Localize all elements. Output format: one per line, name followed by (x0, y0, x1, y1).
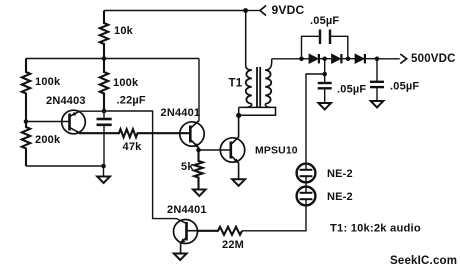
diode D3 (348, 58, 355, 60)
capacitor C1 .05uF top (302, 36, 321, 59)
resistor 100k left (22, 59, 30, 122)
ground MPSU10 (232, 179, 245, 186)
neon lamp NE-2 #1 (297, 164, 316, 183)
node transformer bottom (236, 113, 241, 118)
resistor 22M (197, 227, 242, 235)
transistor Q4 MPSU10 (220, 138, 244, 162)
svg-text:T1: T1 (229, 78, 243, 90)
resistor 5k (194, 150, 202, 189)
ground C2 (318, 103, 331, 110)
neon lamp NE-2 #2 (297, 187, 316, 206)
connector arrow 9VDC (260, 6, 266, 16)
node D1 anode (299, 57, 304, 62)
resistor 47k (79, 129, 190, 137)
node rail-10k junction (102, 56, 107, 61)
svg-text:500VDC: 500VDC (411, 53, 456, 65)
svg-text:47k: 47k (123, 141, 143, 153)
wire 9V top rail (104, 10, 246, 12)
capacitor C3 .05uF (376, 59, 378, 82)
resistor 100k middle (100, 59, 108, 112)
svg-text:.22µF: .22µF (117, 95, 146, 107)
svg-text:.05µF: .05µF (390, 81, 419, 93)
svg-text:100k: 100k (35, 76, 61, 88)
wire Q2 emitter to Q4 base (199, 149, 230, 151)
svg-text:NE-2: NE-2 (327, 191, 353, 203)
transformer T1 secondary (265, 59, 272, 70)
wire second rail (26, 58, 199, 60)
svg-text:22M: 22M (222, 239, 244, 251)
wire 9VDC stub (246, 10, 260, 12)
wire output (377, 58, 400, 60)
svg-text:5k: 5k (181, 161, 194, 173)
svg-text:100k: 100k (113, 77, 139, 89)
svg-text:2N4401: 2N4401 (161, 107, 201, 119)
svg-text:2N4401: 2N4401 (167, 204, 207, 216)
wire to neon string (306, 74, 325, 164)
node 9V rail junction (243, 8, 248, 13)
capacitor C2 .05uF (324, 74, 326, 83)
ground main (103, 166, 105, 176)
wire Q1 collector to cap node (79, 110, 104, 112)
capacitor .22uF (103, 111, 105, 119)
svg-text:.05µF: .05µF (310, 15, 339, 27)
node cap top (102, 109, 107, 114)
resistor 10k (100, 11, 108, 59)
node output (375, 57, 380, 62)
wire Q2 collector to rail (198, 59, 200, 121)
node C2 top (322, 72, 327, 77)
svg-text:10k: 10k (114, 25, 134, 37)
transistor Q2 2N4401 (180, 122, 204, 146)
transformer T1 primary (246, 11, 252, 71)
wire secondary to rectifier (272, 58, 309, 60)
connector arrow 500VDC (400, 54, 406, 64)
svg-text:9VDC: 9VDC (272, 3, 305, 17)
node Q1 base (24, 119, 29, 124)
wire feedback (cap node to Q3 base) (104, 111, 187, 224)
transistor Q3 2N4401 (174, 220, 198, 244)
resistor 200k (22, 122, 30, 167)
wire D1D2 junction down (324, 59, 326, 74)
svg-text:MPSU10: MPSU10 (255, 146, 298, 157)
wire between lamps (305, 182, 307, 186)
ground Q3 (174, 254, 187, 261)
svg-text:NE-2: NE-2 (327, 168, 353, 180)
transformer T1 core (256, 67, 258, 108)
svg-text:2N4403: 2N4403 (46, 95, 86, 107)
node ground junction (101, 164, 106, 169)
svg-text:SeekIC.com: SeekIC.com (390, 255, 457, 267)
wire bottom left (26, 165, 104, 167)
node D1-D2 junction (322, 57, 327, 62)
node D2-D3 junction (346, 57, 351, 62)
wire lamp2 to 22M (242, 205, 306, 230)
ground 5k (193, 190, 206, 197)
wire Q1 base (26, 121, 69, 123)
diode D1 (309, 54, 318, 63)
transformer T1 bottom loop (239, 107, 276, 115)
svg-text:T1: 10k:2k audio: T1: 10k:2k audio (330, 223, 421, 235)
node Q2 emitter (196, 148, 201, 153)
svg-text:.05µF: .05µF (337, 84, 366, 96)
diode D2 (325, 58, 332, 60)
svg-text:200k: 200k (35, 134, 61, 146)
ground C3 (371, 101, 384, 108)
transistor Q1 2N4403 (62, 110, 86, 134)
